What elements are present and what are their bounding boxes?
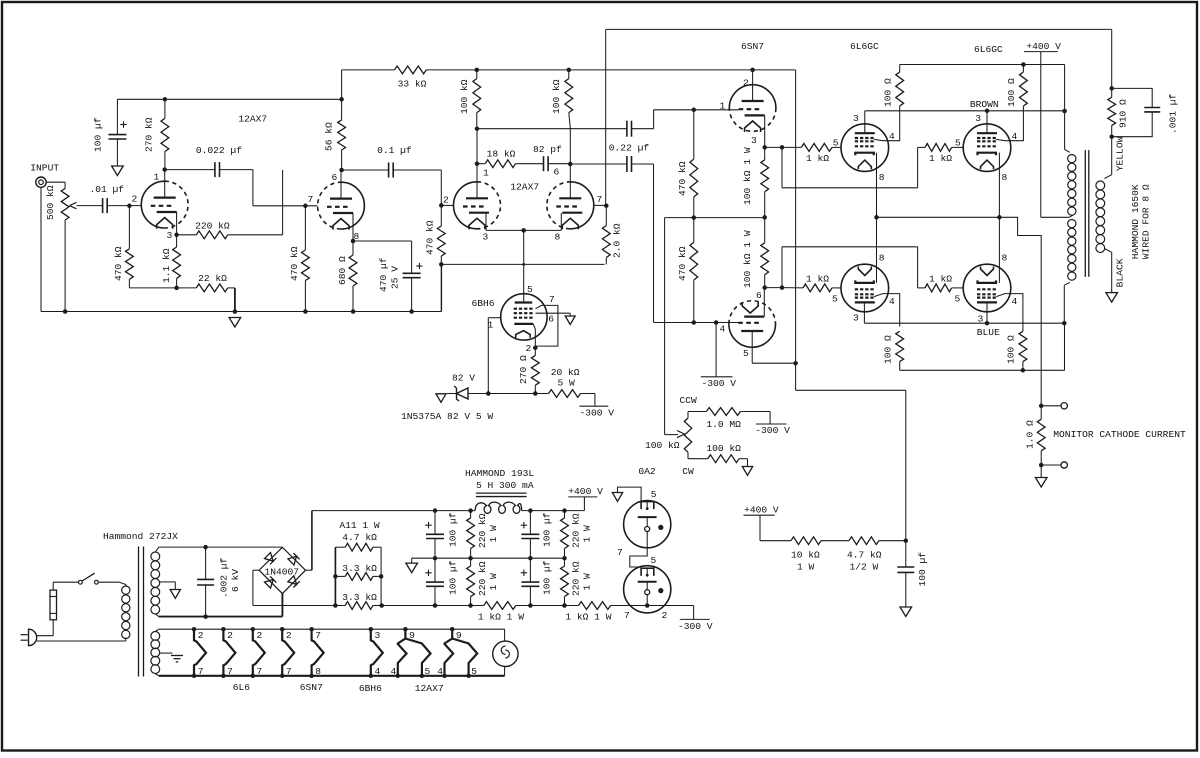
wire bridge plus (306, 511, 312, 571)
label A11 1 W (339, 520, 380, 531)
wire (107, 204, 141, 209)
label 4.7 kOhm (342, 532, 377, 543)
top NFB rail wire (606, 28, 1112, 30)
pin 4 label (1012, 131, 1018, 142)
pin 8 label (1002, 252, 1008, 263)
wire to -300 (715, 323, 717, 377)
pin 5 label (833, 138, 839, 149)
pin 8 label (354, 231, 360, 242)
svg-text:0A2: 0A2 (638, 466, 656, 477)
svg-text:100 kΩ: 100 kΩ (459, 79, 470, 114)
zener 1N5375A 82V (447, 386, 488, 401)
pin 5 label (832, 294, 838, 305)
wire (98, 582, 126, 586)
svg-text:100 µf: 100 µf (917, 552, 928, 587)
node BROWN label (970, 99, 999, 110)
pin 7 label (624, 610, 630, 621)
wire grid1 (486, 318, 501, 396)
resistor 1 kOhm LL grid (782, 274, 832, 292)
svg-text:8: 8 (879, 172, 885, 183)
svg-text:470 µf: 470 µf (378, 257, 389, 292)
svg-text:6SN7: 6SN7 (741, 41, 764, 52)
svg-text:4: 4 (375, 666, 381, 677)
svg-text:470 kΩ: 470 kΩ (677, 246, 688, 281)
screen rail wire (900, 65, 1067, 114)
diode D1 (264, 552, 276, 564)
svg-text:1 kΩ: 1 kΩ (929, 153, 952, 164)
wire cathode V3A (762, 115, 767, 149)
wire grid V2B (594, 203, 609, 208)
diode D3 (264, 576, 276, 588)
feedback wire (605, 29, 607, 205)
wire cathode jog (630, 532, 647, 568)
resistor 100 kOhm 1W lower (742, 217, 769, 289)
lower screen rail wire (900, 323, 1065, 370)
svg-text:5: 5 (955, 138, 961, 149)
resistor 1.0 MOhm (688, 408, 770, 430)
svg-text:5: 5 (955, 294, 961, 305)
pin 5 label (743, 348, 749, 359)
wire (1109, 29, 1114, 90)
wire (646, 595, 648, 606)
ground (229, 318, 241, 328)
wire (341, 70, 343, 99)
wire plate V5 (986, 111, 988, 133)
label 0A2 (638, 466, 656, 477)
resistor 18 kOhm (477, 148, 516, 167)
svg-text:10 kΩ: 10 kΩ (791, 550, 820, 561)
svg-text:HAMMOND 1650K: HAMMOND 1650K (1130, 184, 1141, 259)
svg-text:82 V: 82 V (452, 373, 475, 384)
ground (436, 394, 446, 403)
resistor 10 kOhm 1W (791, 537, 821, 573)
ground (1035, 478, 1047, 488)
capacitor 0.022 uf coupling (165, 145, 243, 177)
svg-text:1 kΩ: 1 kΩ (929, 274, 952, 285)
svg-text:220 kΩ: 220 kΩ (477, 561, 488, 596)
pin 6 label (756, 290, 762, 301)
pin 2 label (662, 610, 668, 621)
resistor 3.3 kOhm B (345, 602, 373, 610)
svg-text:1 W: 1 W (797, 562, 815, 573)
capacitor .01 uf (90, 184, 125, 213)
svg-text:270 kΩ: 270 kΩ (144, 117, 155, 152)
resistor 270 Ohm (518, 348, 539, 396)
svg-text:7: 7 (597, 194, 603, 205)
svg-text:6 kV: 6 kV (230, 569, 241, 592)
tube 12AX7 V2B (547, 182, 594, 230)
svg-text:8: 8 (1002, 172, 1008, 183)
pin 1 label (154, 172, 160, 183)
svg-text:5: 5 (651, 489, 657, 500)
resistor 22 kOhm (177, 273, 228, 292)
svg-text:82 pf: 82 pf (533, 144, 562, 155)
wire cathode V2A (485, 213, 487, 230)
resistor 220 kOhm (177, 220, 230, 238)
wire plate V3B (752, 331, 798, 365)
svg-text:2: 2 (227, 630, 233, 641)
pot wiper (70, 202, 103, 208)
wire screen V5 (996, 106, 1023, 141)
label MONITOR CATHODE CURRENT (1053, 429, 1186, 440)
transformer T2 primary lower (1064, 220, 1076, 324)
transformer T2 secondary (1096, 175, 1112, 293)
tube label 12AX7 (510, 181, 539, 192)
6BH6 heater (516, 331, 530, 338)
svg-text:470 kΩ: 470 kΩ (113, 246, 124, 281)
svg-text:6: 6 (548, 313, 554, 324)
pin 2 label (526, 343, 532, 354)
svg-text:1.1 kΩ: 1.1 kΩ (161, 248, 172, 283)
resistor 470 kOhm bias lower (677, 218, 698, 323)
pin 3 label (751, 135, 757, 146)
svg-text:6BH6: 6BH6 (472, 298, 495, 309)
svg-text:1/2 W: 1/2 W (850, 562, 879, 573)
svg-text:1 W: 1 W (488, 525, 499, 543)
tube 0A2 lower (624, 566, 671, 613)
6BH6 control grid (514, 317, 535, 319)
svg-text:INPUT: INPUT (30, 163, 59, 174)
wire cathode V5 (997, 153, 1002, 220)
wire (1064, 111, 1066, 150)
resistor 470 kOhm V2A grid (425, 205, 446, 266)
pin 7 label (597, 194, 603, 205)
svg-text:CW: CW (682, 466, 694, 477)
wire plate V2A (475, 126, 480, 198)
heater 6L6 V5 (221, 627, 235, 678)
svg-text:8: 8 (315, 666, 321, 677)
resistor 33 kOhm (395, 66, 427, 90)
pin 5 label (651, 555, 657, 566)
transformer T1 heater winding (151, 629, 160, 676)
capacitor .002 uf 6kV (197, 547, 241, 617)
wire bias to pot (665, 218, 694, 435)
svg-text:.001 µf: .001 µf (1168, 93, 1179, 134)
transformer T1 core (139, 547, 144, 677)
resistor 470 kOhm V1B grid (289, 206, 309, 312)
wire cathode pin2 (533, 324, 538, 350)
svg-text:1N5375A 82 V 5 W: 1N5375A 82 V 5 W (401, 411, 493, 422)
diode D2 (288, 553, 300, 565)
pin 5 label (955, 138, 961, 149)
transformer T2 primary upper (1065, 150, 1076, 218)
svg-text:9: 9 (456, 630, 462, 641)
svg-text:12AX7: 12AX7 (510, 181, 539, 192)
capacitor 470 uf 25V (378, 241, 423, 312)
svg-text:7: 7 (308, 194, 314, 205)
resistor 100 kOhm 1W upper (742, 147, 769, 217)
label 82 V (452, 373, 475, 384)
heater rail top wire (159, 628, 505, 630)
wire bias mid (694, 215, 767, 220)
svg-text:5: 5 (471, 666, 477, 677)
resistor 100 Ohm screen LL (883, 331, 904, 370)
svg-text:1: 1 (483, 168, 489, 179)
wire (765, 145, 785, 150)
svg-text:7: 7 (617, 547, 623, 558)
svg-text:3: 3 (375, 630, 381, 641)
wire cathode V2B (560, 213, 562, 230)
wire HV bottom (159, 614, 283, 619)
ground (406, 563, 418, 573)
minus rail wire (516, 603, 579, 608)
svg-text:9: 9 (409, 630, 415, 641)
capacitor 100 uf B (521, 511, 553, 559)
wire plate V1A (162, 167, 167, 197)
resistor 2.0 kOhm (602, 206, 622, 265)
resistor 470 kOhm bias upper (677, 110, 698, 220)
wire (53, 582, 78, 590)
node YELLOW label (1115, 136, 1126, 171)
transformer T1 primary (122, 586, 130, 639)
potentiometer 100 kOhm (645, 412, 692, 459)
svg-text:0.022 µf: 0.022 µf (196, 145, 242, 156)
wire cathode V4 (874, 153, 879, 220)
wire grid V3B (694, 320, 738, 325)
6BH6 screen grids (514, 309, 535, 314)
wire (440, 264, 442, 311)
wire (37, 638, 126, 642)
svg-text:100 µf: 100 µf (542, 512, 553, 547)
resistor 100 Ohm screen UR (1006, 62, 1027, 107)
svg-text:910 Ω: 910 Ω (1118, 99, 1129, 128)
svg-text:1 W: 1 W (488, 573, 499, 591)
tube 12AX7 V1A (141, 181, 188, 228)
pin 6 label (332, 172, 338, 183)
0A2 cathode (638, 582, 664, 595)
svg-text:5 H 300 mA: 5 H 300 mA (476, 480, 534, 491)
wire grid UR (952, 146, 964, 148)
svg-text:0.1 µf: 0.1 µf (377, 145, 412, 156)
wire (488, 393, 535, 395)
resistor 100 kOhm (551, 70, 573, 129)
wire (63, 220, 68, 314)
ground (170, 590, 180, 599)
transformer T2 core (1085, 150, 1089, 277)
wire (821, 540, 849, 542)
wire (1040, 465, 1042, 478)
svg-text:470 kΩ: 470 kΩ (289, 246, 300, 281)
tube label 6SN7 (741, 41, 764, 52)
svg-text:100 kΩ: 100 kΩ (551, 79, 562, 114)
svg-text:BROWN: BROWN (970, 99, 999, 110)
terminal (1061, 403, 1067, 409)
plate rail wire (477, 128, 627, 130)
pin 8 label (1002, 172, 1008, 183)
label 1N5375A (401, 411, 493, 422)
svg-text:4.7 kΩ: 4.7 kΩ (847, 550, 882, 561)
svg-text:470 kΩ: 470 kΩ (677, 161, 688, 196)
svg-text:YELLOW: YELLOW (1115, 136, 1126, 171)
node +400 V psu (568, 486, 603, 510)
node BLACK label (1115, 258, 1126, 287)
wire (37, 620, 53, 636)
resistor 1 kOhm 1W B (565, 602, 611, 623)
svg-text:220 kΩ: 220 kΩ (195, 220, 230, 231)
0A2 cathode (638, 517, 664, 531)
label 6L6 (233, 682, 251, 693)
pin 2 label (743, 77, 749, 88)
wire jog lower (782, 247, 925, 288)
tube 6L6GC V5 upper-right (963, 124, 1011, 172)
pin 3 label (483, 232, 489, 243)
svg-text:220 kΩ: 220 kΩ (571, 561, 582, 596)
pin 1 label (483, 168, 489, 179)
svg-text:33 kΩ: 33 kΩ (398, 79, 427, 90)
svg-text:.002 µf: .002 µf (219, 557, 230, 598)
tube label 6BH6 (472, 298, 495, 309)
wire (228, 288, 237, 314)
wire (765, 285, 785, 290)
svg-text:7: 7 (198, 666, 204, 677)
tube 6L6GC V4 upper-left (841, 124, 889, 172)
svg-text:.01 µf: .01 µf (90, 184, 125, 195)
resistor 4.7 kOhm half W (847, 537, 882, 573)
svg-text:1 kΩ: 1 kΩ (806, 153, 829, 164)
svg-text:470 kΩ: 470 kΩ (425, 220, 436, 255)
svg-text:6L6: 6L6 (233, 682, 251, 693)
rail wire B+ (426, 68, 795, 73)
tube 12AX7 V1B (318, 182, 365, 229)
B+ rail wire (312, 508, 475, 512)
node -300 V (701, 377, 736, 389)
svg-text:-300 V: -300 V (678, 621, 713, 632)
wire (1041, 464, 1061, 466)
tube label 12AX7 (238, 113, 267, 124)
resistor 56 kOhm (324, 97, 346, 170)
svg-text:500 kΩ: 500 kΩ (45, 185, 56, 220)
ground (742, 467, 752, 476)
capacitor 100 uf decoupling (92, 99, 126, 166)
0A2 anode cup (641, 568, 654, 576)
capacitor 100 uf (897, 541, 928, 607)
resistor 100 Ohm screen UL (883, 65, 904, 108)
svg-text:100 Ω: 100 Ω (883, 78, 894, 107)
wire cathode V6 (876, 217, 878, 283)
svg-text:100 kΩ: 100 kΩ (706, 443, 741, 454)
resistor 100 Ohm screen LR (1006, 331, 1027, 372)
svg-text:100 Ω: 100 Ω (1006, 78, 1017, 107)
mid rail wire (412, 556, 567, 561)
svg-text:2: 2 (662, 610, 668, 621)
wire (879, 540, 906, 542)
svg-text:5: 5 (527, 284, 533, 295)
wire grid V2A (441, 204, 453, 206)
resistor 100 kOhm lower (688, 443, 741, 463)
svg-text:2.0 kΩ: 2.0 kΩ (612, 223, 623, 258)
svg-text:270 Ω: 270 Ω (518, 355, 529, 384)
transformer T1 HV secondary (151, 547, 160, 617)
capacitor .001 uf (1112, 88, 1179, 136)
wire screen V6 (874, 294, 900, 327)
heater 12AX7 V1 (391, 627, 431, 678)
svg-text:1.0 Ω: 1.0 Ω (1025, 420, 1036, 449)
resistor 3.3 kOhm A (335, 573, 381, 581)
svg-text:100 kΩ: 100 kΩ (645, 440, 680, 451)
wire screen to ground (536, 313, 571, 316)
svg-text:4: 4 (437, 666, 443, 677)
pin 4 label (720, 324, 726, 335)
svg-text:+400 V: +400 V (1026, 41, 1061, 52)
tube 6L6GC V6 lower-left (841, 264, 889, 312)
wire plate V2B (569, 129, 571, 199)
resistor 4.7 kOhm (335, 543, 381, 551)
svg-text:7: 7 (549, 294, 555, 305)
ground (112, 166, 124, 176)
svg-text:100 µf: 100 µf (448, 560, 459, 595)
svg-text:2: 2 (132, 194, 138, 205)
choke L1 (475, 493, 526, 513)
wire grid V3A (694, 109, 739, 111)
wire (353, 240, 412, 242)
svg-text:1 kΩ 1 W: 1 kΩ 1 W (478, 612, 524, 623)
bridge rectifier 1N4007 (259, 547, 305, 593)
svg-text:25 V: 25 V (389, 266, 400, 289)
pin 8 label (879, 172, 885, 183)
svg-text:CCW: CCW (680, 395, 698, 406)
wire cathode V3B (763, 288, 765, 317)
pilot lamp (493, 629, 518, 676)
cathode rail wire (877, 217, 1044, 408)
wire yellow tap (1111, 137, 1113, 175)
AC plug (21, 629, 37, 645)
svg-text:5: 5 (425, 666, 431, 677)
svg-text:12AX7: 12AX7 (415, 683, 444, 694)
label 3.3 kOhm (342, 592, 377, 603)
pin 5 label (527, 284, 533, 295)
network box left (333, 547, 338, 608)
chassis ground (171, 656, 183, 662)
node -300 V (580, 406, 615, 418)
label Hammond 272JX (103, 531, 178, 542)
label CCW (680, 395, 698, 406)
wire (394, 170, 444, 208)
svg-text:3: 3 (167, 230, 173, 241)
resistor 1 kOhm UL grid (782, 144, 832, 165)
capacitor 100 uf A (425, 511, 458, 559)
plate rail wire BLUE (864, 321, 1066, 326)
svg-text:6: 6 (332, 172, 338, 183)
supply rail wire (117, 98, 341, 100)
diode D4 (288, 576, 300, 588)
heater 6SN7 (309, 627, 323, 678)
ground return wire (441, 263, 604, 266)
pin 3 label (978, 314, 984, 325)
resistor 220 kOhm 1W A (467, 511, 499, 559)
label WIRED FOR 8 Ohm (1141, 184, 1152, 259)
svg-text:BLUE: BLUE (977, 327, 1000, 338)
svg-text:1 W: 1 W (582, 573, 593, 591)
svg-text:1 kΩ: 1 kΩ (806, 274, 829, 285)
wire HV CT (160, 582, 176, 590)
pin 7 label (617, 547, 623, 558)
plate rail wire BROWN (865, 109, 1065, 114)
resistor 1.1 kOhm (161, 235, 181, 290)
potentiometer 500 kOhm (45, 185, 69, 220)
resistor 680 Ohm (337, 241, 357, 312)
svg-text:12AX7: 12AX7 (238, 113, 267, 124)
svg-text:2: 2 (443, 195, 449, 206)
svg-text:100 µf: 100 µf (448, 512, 459, 547)
svg-text:5: 5 (743, 348, 749, 359)
tube 6L6GC V7 lower-right (963, 264, 1011, 312)
wire jog upper (782, 147, 925, 187)
svg-text:BLACK: BLACK (1115, 258, 1126, 287)
resistor 220 kOhm 1W D (561, 558, 593, 605)
network box right (379, 547, 384, 608)
svg-text:100 µf: 100 µf (92, 117, 103, 152)
pin 1 label (488, 320, 494, 331)
